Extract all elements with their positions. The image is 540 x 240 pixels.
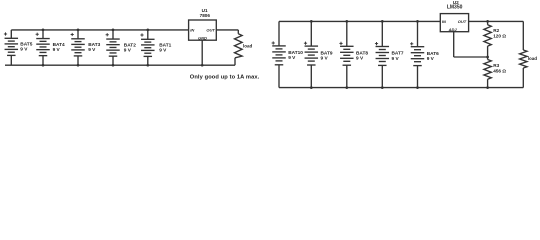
node right bottom rail junction xyxy=(416,86,419,89)
node right top rail junction xyxy=(416,20,419,23)
wire BAT3 top stem xyxy=(77,30,79,39)
svg-text:R2: R2 xyxy=(493,28,499,33)
wire BAT1 top stem xyxy=(147,30,149,39)
wire U1 GND stem xyxy=(201,40,203,65)
wire BAT2 bottom stem xyxy=(112,56,114,65)
svg-text:GND: GND xyxy=(198,35,207,40)
battery BAT1 xyxy=(140,33,171,56)
svg-text:BAT9: BAT9 xyxy=(321,50,333,56)
svg-text:BAT7: BAT7 xyxy=(392,51,404,57)
svg-text:9 V: 9 V xyxy=(392,56,400,62)
svg-text:9 V: 9 V xyxy=(356,56,364,62)
node top rail junction xyxy=(77,29,80,32)
wire BAT9 bottom stem xyxy=(310,65,312,88)
op-amp U1 7806 regulator box xyxy=(189,20,217,40)
svg-text:456 Ω: 456 Ω xyxy=(493,68,506,73)
battery BAT9 xyxy=(304,42,333,65)
resistor R2 120 ohm xyxy=(484,21,506,57)
node OUT R2 junction xyxy=(486,20,489,23)
node right bottom rail junction xyxy=(345,86,348,89)
svg-text:9 V: 9 V xyxy=(321,55,329,61)
wire BAT7 top stem xyxy=(381,21,383,46)
svg-text:OUT: OUT xyxy=(458,19,467,24)
resistor load (left) xyxy=(235,30,253,65)
wire U2 OUT rail xyxy=(469,20,524,22)
svg-text:BAT8: BAT8 xyxy=(356,51,368,57)
wire BAT2 top stem xyxy=(112,30,114,39)
node bottom rail junction xyxy=(146,64,149,67)
node ADJ R2 R3 junction xyxy=(486,56,489,59)
wire ADJ tee xyxy=(454,56,488,58)
wire BAT10 top stem xyxy=(278,21,280,46)
node GND junction xyxy=(201,64,204,67)
wire BAT4 top stem xyxy=(42,30,44,39)
wire BAT9 top stem xyxy=(310,21,312,46)
svg-text:IN: IN xyxy=(442,19,446,24)
node top rail junction xyxy=(112,29,115,32)
node right bottom rail junction xyxy=(381,86,384,89)
wire BAT10 bottom stem xyxy=(278,65,280,88)
svg-text:BAT10: BAT10 xyxy=(288,50,303,56)
wire right top rail xyxy=(279,20,440,22)
battery BAT10 xyxy=(272,41,304,64)
resistor R3 456 ohm xyxy=(484,57,506,88)
op-amp U2 LM350 regulator box xyxy=(440,14,468,32)
wire U2 ADJ stem xyxy=(453,32,455,57)
battery BAT3 xyxy=(71,33,101,56)
wire BAT6 top stem xyxy=(417,21,419,46)
svg-text:9 V: 9 V xyxy=(288,55,296,61)
svg-text:ADJ: ADJ xyxy=(448,27,458,32)
node right top rail junction xyxy=(345,20,348,23)
wire BAT3 bottom stem xyxy=(77,56,79,65)
node top rail junction xyxy=(42,29,45,32)
node R3 bottom junction xyxy=(486,86,489,89)
wire BAT8 bottom stem xyxy=(346,65,348,87)
battery BAT6 xyxy=(410,42,439,65)
resistor load (right) xyxy=(520,21,538,87)
node right top rail junction xyxy=(310,20,313,23)
wire left bottom rail xyxy=(5,64,235,66)
svg-text:IN: IN xyxy=(190,27,194,32)
wire BAT7 bottom stem xyxy=(381,65,383,87)
node top rail junction xyxy=(146,29,149,32)
svg-text:R3: R3 xyxy=(493,63,499,68)
wire BAT6 bottom stem xyxy=(417,66,419,88)
svg-text:load: load xyxy=(243,43,253,48)
battery BAT2 xyxy=(106,33,137,56)
svg-text:Only good up to 1A max.: Only good up to 1A max. xyxy=(190,75,260,81)
node bottom rail junction xyxy=(42,64,45,67)
svg-text:BAT6: BAT6 xyxy=(427,51,439,57)
svg-text:OUT: OUT xyxy=(206,27,215,32)
svg-text:7806: 7806 xyxy=(200,13,211,18)
svg-text:load: load xyxy=(528,56,538,61)
wire BAT1 bottom stem xyxy=(147,56,149,65)
svg-text:9 V: 9 V xyxy=(124,47,132,53)
battery BAT5 xyxy=(4,32,33,55)
svg-text:9 V: 9 V xyxy=(427,56,435,62)
wire BAT5 bottom stem xyxy=(10,55,12,65)
battery BAT4 xyxy=(36,33,65,56)
node bottom rail junction xyxy=(112,64,115,67)
node right bottom rail junction xyxy=(310,86,313,89)
wire BAT5 top stem xyxy=(10,30,12,38)
wire BAT4 bottom stem xyxy=(42,56,44,66)
svg-text:9 V: 9 V xyxy=(88,47,96,53)
battery BAT8 xyxy=(339,42,368,65)
wire right bottom rail xyxy=(279,87,523,89)
battery BAT7 xyxy=(375,42,404,65)
wire U1 OUT to load xyxy=(216,29,238,31)
svg-text:9 V: 9 V xyxy=(20,47,28,53)
svg-text:120 Ω: 120 Ω xyxy=(493,33,506,38)
node right top rail junction xyxy=(381,20,384,23)
svg-text:LM350: LM350 xyxy=(447,5,463,11)
svg-text:9 V: 9 V xyxy=(53,47,61,53)
svg-text:9 V: 9 V xyxy=(159,48,167,54)
node bottom rail junction xyxy=(77,64,80,67)
wire left top rail xyxy=(11,29,188,31)
wire BAT8 top stem xyxy=(346,21,348,46)
